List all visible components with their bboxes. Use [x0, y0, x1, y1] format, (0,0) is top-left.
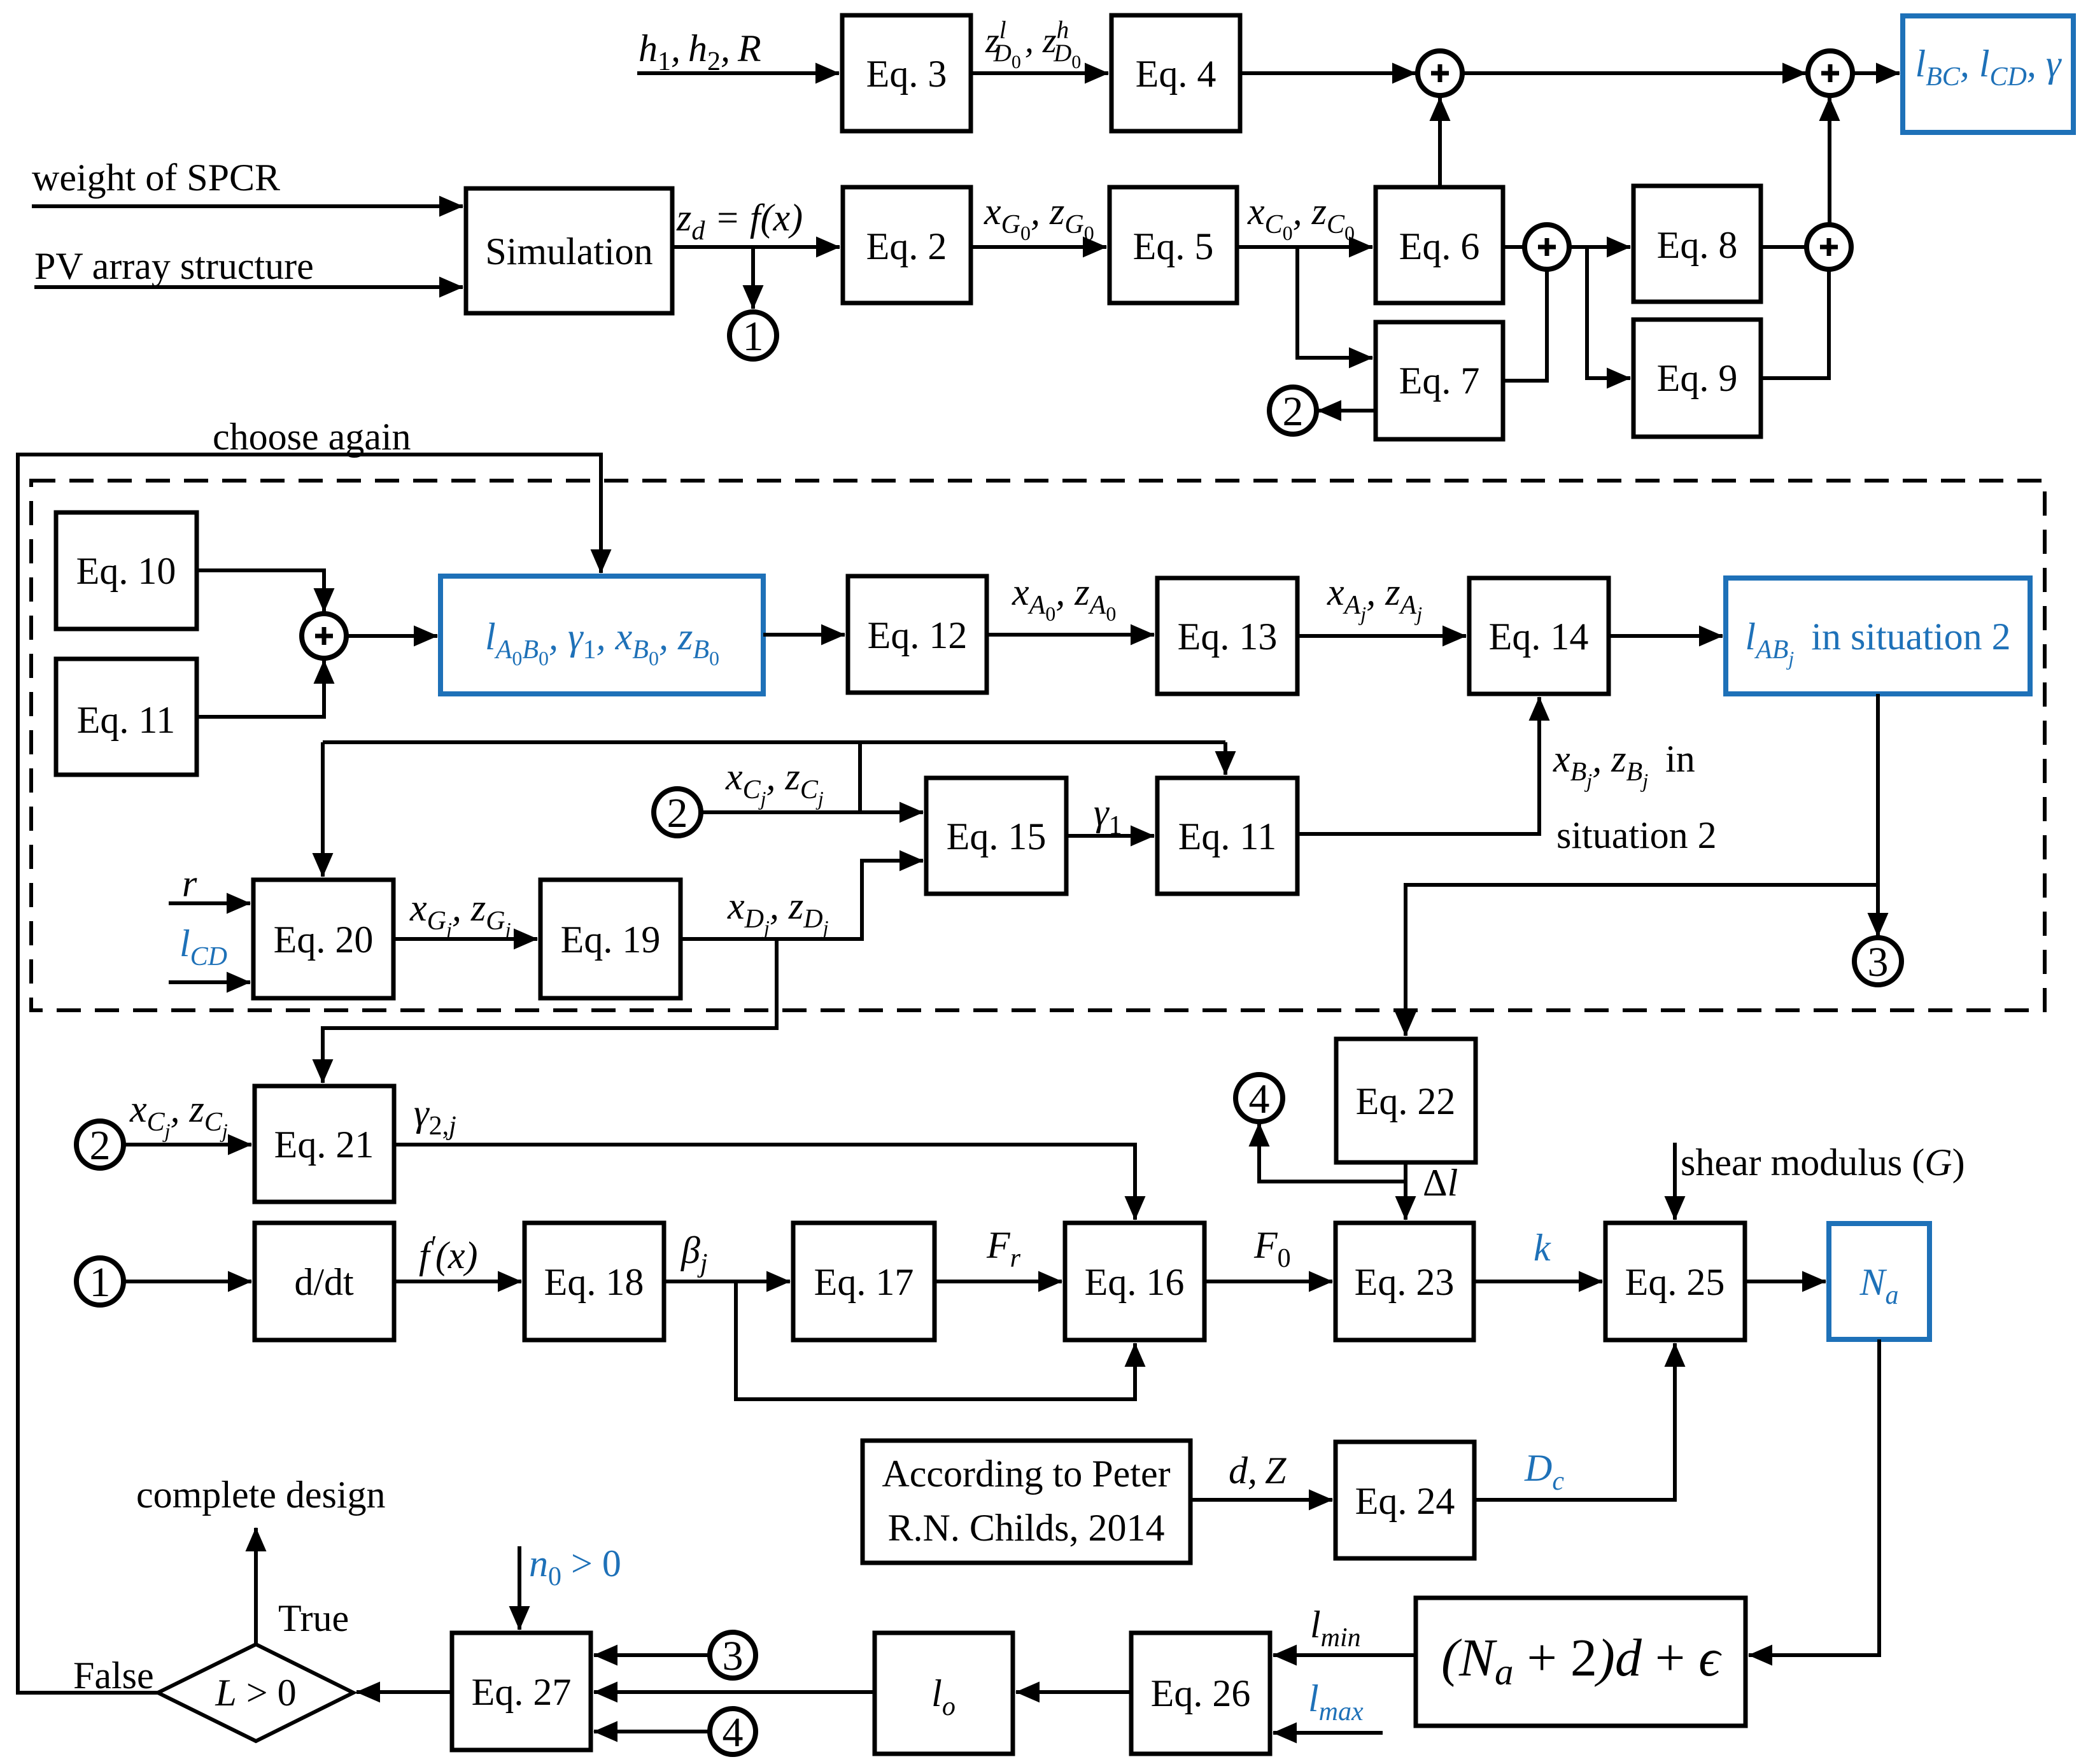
wire connector 2 to Eq. 15 upper input: [701, 810, 923, 814]
box d/dt: [255, 1223, 394, 1340]
wire Eq. 22 delta-l to Eq. 23: [1404, 1162, 1407, 1220]
wire branch down to Eq. 9: [1587, 247, 1630, 378]
wire summing node C to blue box: [347, 634, 437, 638]
svg-text:h1, h2, R: h1, h2, R: [638, 27, 761, 76]
svg-text:Eq. 3: Eq. 3: [866, 53, 947, 95]
connector circle 2 (into Eq. 15): [654, 789, 701, 836]
wire Eq. 15 to Eq. 11 gamma1: [1066, 834, 1154, 838]
box Eq. 2: [843, 187, 971, 303]
svg-text:Eq. 8: Eq. 8: [1657, 224, 1738, 266]
svg-text:Simulation: Simulation: [485, 230, 652, 272]
wire summing node B up to summing node 2: [1828, 97, 1831, 224]
svg-text:Eq. 24: Eq. 24: [1355, 1480, 1455, 1522]
svg-text:Eq. 5: Eq. 5: [1133, 225, 1214, 267]
svg-text:Eq. 25: Eq. 25: [1625, 1261, 1725, 1303]
wire Eq. 11 to summing node C: [197, 660, 324, 717]
wire Eq. 18 to Eq. 17: [664, 1280, 790, 1283]
wire lCD into Eq. 20: [169, 980, 250, 984]
connector circle 3 (into Eq. 27): [710, 1632, 756, 1678]
box Eq. 21: [255, 1086, 394, 1202]
wire branch down to connector 1: [751, 247, 755, 309]
wire weight of SPCR into Simulation: [32, 204, 463, 208]
wire summing node to summing node 2: [1463, 71, 1806, 75]
svg-text:2: 2: [1283, 388, 1304, 435]
wire gamma2,j from Eq. 21 to Eq. 16 top: [394, 1145, 1135, 1220]
svg-text:r: r: [182, 863, 197, 905]
wire connector 2 to Eq. 21: [123, 1143, 251, 1147]
box Eq. 10: [56, 512, 197, 629]
box Eq. 26: [1131, 1633, 1270, 1754]
wire summing node A to Eq. 8: [1570, 245, 1630, 249]
wire shear modulus into Eq. 25: [1673, 1143, 1677, 1220]
summing junction top-left (+): [1418, 51, 1462, 95]
wire connector 3 to Eq. 27: [594, 1653, 710, 1657]
svg-text:3: 3: [723, 1633, 744, 1679]
svg-text:d/dt: d/dt: [294, 1261, 354, 1303]
box Simulation: [466, 188, 672, 313]
box lo: [875, 1633, 1013, 1754]
svg-text:Eq. 11: Eq. 11: [77, 699, 175, 741]
box Eq. 4: [1111, 15, 1240, 131]
svg-text:Eq. 21: Eq. 21: [274, 1124, 374, 1166]
wire feedback loop False-to-choose-again: [18, 455, 601, 1693]
wire Simulation to Eq. 2: [672, 245, 840, 249]
wire Eq. 13 to Eq. 14: [1297, 634, 1466, 638]
svg-text:1: 1: [743, 313, 764, 360]
wire summing node 2 to output box: [1852, 71, 1900, 75]
svg-text:Eq. 11: Eq. 11: [1178, 815, 1276, 857]
svg-text:shear modulus (G): shear modulus (G): [1681, 1141, 1965, 1183]
wire Na output down to formula box: [1749, 1339, 1879, 1655]
svg-text:L > 0: L > 0: [215, 1672, 296, 1714]
wire xDj,zDj down to Eq. 21: [323, 939, 777, 1083]
svg-text:situation 2: situation 2: [1556, 814, 1717, 856]
box Eq. 6: [1376, 187, 1503, 303]
svg-text:d, Z: d, Z: [1229, 1450, 1287, 1492]
dashed iteration-loop box: [31, 481, 2045, 1010]
svg-text:R.N. Childs, 2014: R.N. Childs, 2014: [887, 1507, 1164, 1549]
wire According box to Eq. 24: [1190, 1498, 1332, 1502]
wire Eq. 27 to decision diamond: [356, 1690, 452, 1694]
svg-text:4: 4: [1249, 1076, 1270, 1122]
decision diamond L>0: [158, 1644, 353, 1741]
wire lo to Eq. 27: [594, 1690, 875, 1694]
box Na (blue): [1829, 1224, 1929, 1339]
wire Eq. 25 to Na box: [1745, 1280, 1826, 1283]
wire Eq. 11 output to Eq. 14 bottom: [1297, 697, 1539, 834]
svg-text:Eq. 12: Eq. 12: [868, 614, 968, 656]
wire lmin formula to Eq. 26: [1273, 1653, 1416, 1657]
svg-text:Eq. 18: Eq. 18: [544, 1261, 644, 1303]
svg-text:Eq. 6: Eq. 6: [1399, 225, 1480, 267]
svg-text:choose again: choose again: [213, 416, 411, 458]
wire diamond True to complete design: [254, 1528, 258, 1644]
wire distribution down to Eq. 20: [321, 742, 325, 877]
wire Eq. 8 to summing node B: [1761, 245, 1806, 249]
wire Eq. 3 to Eq. 4: [971, 71, 1108, 75]
box Eq. 22: [1336, 1039, 1476, 1162]
box Eq. 19: [540, 880, 681, 998]
wire distribution line xCj,zCj: [323, 740, 1225, 744]
connector circle 1 (into d/dt): [76, 1258, 123, 1305]
box Eq. 20: [253, 880, 393, 998]
connector circle 1 (source): [730, 312, 777, 359]
svg-text:f′(x): f′(x): [419, 1231, 477, 1276]
svg-text:PV array structure: PV array structure: [34, 245, 314, 287]
svg-text:2: 2: [667, 790, 688, 836]
svg-text:According to Peter: According to Peter: [882, 1453, 1170, 1495]
wire branch Eq. 5 output down to Eq. 7: [1297, 247, 1372, 358]
wire Eq. 19 output to Eq. 15 lower input: [681, 861, 923, 939]
svg-text:Δl: Δl: [1423, 1162, 1458, 1204]
wire Eq. 6 top to summing node 1: [1438, 97, 1442, 187]
wire Eq. 5 to Eq. 6: [1237, 245, 1372, 249]
svg-text:Eq. 14: Eq. 14: [1489, 616, 1589, 658]
wire d/dt to Eq. 18: [394, 1280, 521, 1283]
wire Eq. 4 to summing node 1: [1240, 71, 1416, 75]
wire input h1,h2,R into Eq. 3: [637, 71, 839, 75]
connector circle 3 (sink): [1854, 938, 1901, 985]
svg-text:1: 1: [90, 1259, 111, 1306]
summing junction after Eq. 6 (+): [1525, 225, 1569, 269]
box lABj in situation 2 (blue): [1726, 578, 2030, 694]
wire distribution join to circle-2 line: [858, 742, 862, 812]
svg-text:Eq. 7: Eq. 7: [1399, 360, 1480, 402]
wire Eq. 9 output up to summing node B: [1761, 269, 1829, 378]
box Eq. 18: [525, 1223, 664, 1340]
connector circle 2 (into Eq. 21): [76, 1121, 123, 1168]
svg-text:Eq. 9: Eq. 9: [1657, 357, 1738, 399]
wire Eq. 7 to connector 2: [1318, 409, 1376, 413]
wire Eq. 24 Dc to Eq. 25 bottom: [1474, 1343, 1675, 1500]
wire distribution down into Eq. 11 (lower): [1224, 742, 1227, 775]
svg-text:Eq. 22: Eq. 22: [1356, 1080, 1456, 1122]
svg-text:False: False: [73, 1655, 154, 1697]
wire PV array structure into Simulation: [34, 285, 463, 289]
wire Eq. 16 to Eq. 23: [1204, 1280, 1332, 1283]
svg-text:k: k: [1534, 1227, 1551, 1269]
box Eq. 17: [793, 1223, 935, 1340]
svg-text:Eq. 4: Eq. 4: [1136, 53, 1217, 95]
svg-text:2: 2: [90, 1122, 111, 1169]
summing junction top-right (+): [1808, 51, 1852, 95]
box Eq. 15: [926, 778, 1066, 894]
svg-text:Eq. 2: Eq. 2: [866, 225, 947, 267]
svg-text:n0 > 0: n0 > 0: [529, 1542, 621, 1591]
svg-text:Eq. 13: Eq. 13: [1178, 616, 1278, 658]
wire Eq. 26 to lo box: [1016, 1690, 1131, 1694]
box Eq. 3: [842, 15, 971, 131]
wire Eq. 2 to Eq. 5: [971, 245, 1106, 249]
svg-text:Eq. 16: Eq. 16: [1085, 1261, 1185, 1303]
box Eq. 5: [1110, 187, 1237, 303]
box Eq. 14: [1469, 578, 1609, 694]
svg-text:Eq. 15: Eq. 15: [947, 815, 1047, 857]
box output lBC,lCD,gamma (blue): [1903, 16, 2073, 132]
svg-text:Eq. 19: Eq. 19: [561, 919, 661, 961]
box According to Peter R.N. Childs 2014: [863, 1441, 1190, 1563]
svg-text:weight of SPCR: weight of SPCR: [32, 157, 280, 199]
svg-text:3: 3: [1868, 939, 1889, 985]
wire Eq. 20 to Eq. 19: [393, 937, 537, 941]
svg-text:Eq. 23: Eq. 23: [1355, 1261, 1455, 1303]
svg-text:4: 4: [723, 1709, 744, 1756]
box Eq. 11 (inner loop): [1157, 778, 1297, 894]
box Eq. 13: [1157, 578, 1297, 694]
box Eq. 7: [1376, 322, 1503, 439]
wire blue box to Eq. 12: [763, 633, 845, 637]
box Eq. 8: [1633, 186, 1761, 302]
connector circle 4 (into Eq. 27): [710, 1709, 756, 1754]
wire Eq. 14 to blue box lABj: [1609, 634, 1723, 638]
box (Na+2)d+eps formula: [1416, 1598, 1746, 1726]
wire Eq. 7 output up to summing node A: [1503, 269, 1547, 381]
wire connector 1 to d/dt: [123, 1280, 251, 1283]
box Eq. 9: [1633, 320, 1761, 437]
svg-text:Eq. 27: Eq. 27: [472, 1671, 572, 1713]
box Eq. 23: [1336, 1223, 1474, 1340]
summing junction before blue box (+): [302, 614, 346, 658]
box Eq. 12: [848, 576, 987, 693]
wire Eq. 6 to summing node A: [1503, 245, 1524, 249]
box Eq. 27: [452, 1633, 591, 1750]
wire connector 4 to Eq. 27: [594, 1730, 710, 1733]
wire lmax into Eq. 26: [1273, 1731, 1383, 1735]
svg-text:(Na + 2)d + ϵ: (Na + 2)d + ϵ: [1441, 1628, 1722, 1693]
summing junction after Eq. 8 (+): [1807, 225, 1851, 269]
svg-text:Eq. 17: Eq. 17: [814, 1261, 914, 1303]
svg-text:Eq. 10: Eq. 10: [76, 550, 176, 592]
wire lABj down-line: [1876, 694, 1880, 936]
connector circle 2 (source): [1269, 387, 1316, 434]
svg-text:complete design: complete design: [136, 1474, 386, 1516]
svg-text:Eq. 20: Eq. 20: [274, 919, 374, 961]
svg-text:Eq. 26: Eq. 26: [1151, 1672, 1251, 1714]
box Eq. 25: [1605, 1223, 1745, 1340]
box Eq. 11 (upper-left): [56, 659, 197, 775]
connector circle 4 (sink): [1236, 1075, 1283, 1122]
box lA0B0 state (blue): [441, 576, 763, 694]
svg-text:True: True: [278, 1597, 349, 1639]
wire delta-l branch to connector 4: [1259, 1123, 1406, 1182]
wire Eq. 23 to Eq. 25 k: [1474, 1280, 1602, 1283]
box Eq. 16: [1065, 1223, 1204, 1340]
wire Eq. 12 to Eq. 13: [987, 633, 1154, 637]
wire Eq. 17 to Eq. 16: [935, 1280, 1062, 1283]
wire beta j branch to Eq. 16 bottom: [736, 1281, 1135, 1399]
wire horizontal into Eq. 22 feed: [1406, 885, 1878, 1036]
wire n0>0 into Eq. 27 top: [518, 1546, 521, 1630]
wire r into Eq. 20: [169, 901, 250, 905]
box Eq. 24: [1336, 1442, 1474, 1558]
wire Eq. 10 to summing node C: [197, 570, 324, 612]
